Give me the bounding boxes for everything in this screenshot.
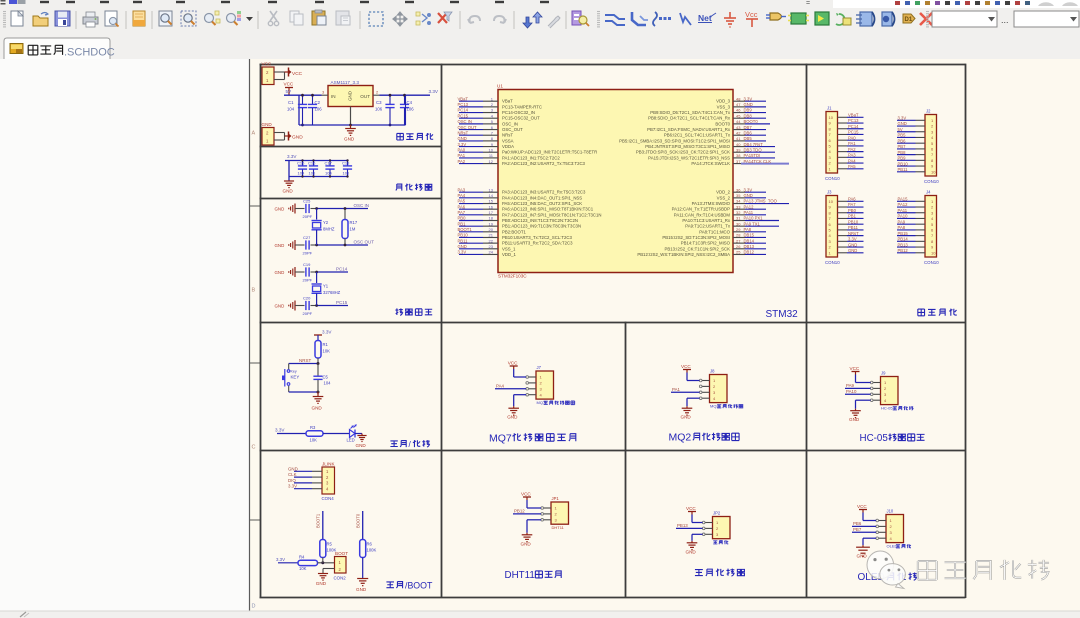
svg-text:20PF: 20PF bbox=[303, 251, 313, 256]
svg-text:5V: 5V bbox=[286, 89, 293, 94]
pin 30 right: net PA9 TX1 bbox=[733, 225, 745, 227]
svg-text:GND: GND bbox=[849, 417, 860, 422]
wire and net label DIO bbox=[294, 482, 312, 484]
svg-text:GND: GND bbox=[275, 304, 285, 309]
pin 37 right: net PA14TCK CLK bbox=[733, 163, 745, 165]
wire VCC to pin1 bbox=[862, 513, 864, 521]
svg-text:BOOT0: BOOT0 bbox=[744, 119, 759, 124]
svg-text:GND: GND bbox=[262, 122, 273, 127]
svg-text:24: 24 bbox=[489, 250, 494, 255]
svg-text:14: 14 bbox=[489, 193, 494, 198]
svg-text:10: 10 bbox=[931, 250, 936, 255]
pin 8 left: net GND bbox=[459, 140, 483, 142]
svg-text:42: 42 bbox=[736, 130, 741, 135]
svg-text:PA11: PA11 bbox=[744, 210, 754, 215]
pin 24 left: net 3.3V bbox=[459, 253, 483, 255]
pin 15 left: net PA5 bbox=[459, 203, 483, 205]
svg-text:KEY: KEY bbox=[291, 375, 300, 380]
svg-text:20PF: 20PF bbox=[303, 311, 313, 316]
regulator U2 ASM1117_3.3 bbox=[328, 86, 373, 107]
svg-text:PA4: PA4 bbox=[848, 158, 856, 163]
svg-text:C20: C20 bbox=[303, 296, 311, 301]
wire left cap rail vertical bbox=[298, 95, 300, 125]
pin 3 regulator input bbox=[322, 94, 329, 96]
pin 44 right: net BOOT0 bbox=[733, 123, 745, 125]
wire BOOT0 vertical bbox=[362, 511, 364, 540]
svg-text:VCC: VCC bbox=[521, 492, 531, 497]
svg-text:PB10:USART3_Tx:T2C2_SCL:T2C3: PB10:USART3_Tx:T2C2_SCL:T2C3 bbox=[502, 235, 573, 240]
svg-text:PA6: PA6 bbox=[458, 204, 466, 209]
svg-text:PC13: PC13 bbox=[848, 118, 859, 123]
svg-text:HC-05: HC-05 bbox=[881, 406, 893, 411]
svg-text:C27: C27 bbox=[303, 235, 311, 240]
icon zoom document bbox=[159, 11, 172, 26]
connector P1 VCC 2-pin bbox=[262, 67, 274, 85]
svg-text:PA4:ADC123_IN4:DAC_OUT1:SPI1_N: PA4:ADC123_IN4:DAC_OUT1:SPI1_NSS bbox=[502, 195, 582, 200]
svg-text:C16: C16 bbox=[308, 161, 316, 166]
svg-text:18: 18 bbox=[489, 216, 494, 221]
resistor R6 100K bbox=[360, 540, 366, 558]
svg-text:CON2: CON2 bbox=[334, 576, 347, 581]
svg-text:Y1: Y1 bbox=[323, 284, 329, 289]
wire net PA1 bbox=[671, 391, 700, 393]
icon sheet entry bbox=[815, 12, 829, 25]
svg-text:NRST: NRST bbox=[299, 358, 312, 363]
capacitor C15 104 bbox=[302, 161, 304, 166]
svg-text:GND: GND bbox=[348, 91, 353, 101]
wire VCC to pin1 bbox=[691, 515, 693, 523]
wire pin4 to ground bbox=[687, 397, 700, 399]
svg-text:PA10:T1C3:USART1_Rx: PA10:T1C3:USART1_Rx bbox=[682, 218, 730, 223]
svg-text:PA5:ADC123_IN5:DAC_OUT2:SPI1_S: PA5:ADC123_IN5:DAC_OUT2:SPI1_SCK bbox=[502, 201, 582, 206]
icon copy (disabled) bbox=[290, 11, 299, 22]
svg-text:8MHZ: 8MHZ bbox=[323, 227, 335, 232]
pin 2 left: net PC13 bbox=[459, 106, 483, 108]
svg-text:D: D bbox=[252, 604, 256, 610]
svg-text:GND: GND bbox=[507, 415, 518, 420]
svg-text:JP2: JP2 bbox=[713, 511, 721, 516]
svg-text:PB15: PB15 bbox=[898, 231, 909, 236]
svg-text:3.3V: 3.3V bbox=[322, 330, 332, 335]
svg-text:3.3V: 3.3V bbox=[898, 116, 907, 121]
connector JP2 sensor bbox=[713, 517, 731, 539]
wire +5V rail bbox=[284, 94, 322, 96]
connector JP1 sensor bbox=[551, 502, 569, 524]
wire net PA5 bbox=[847, 168, 864, 170]
svg-text:PA11:CAN_Rx:T1C4:USBDM: PA11:CAN_Rx:T1C4:USBDM bbox=[674, 212, 731, 217]
svg-text:1M: 1M bbox=[350, 227, 356, 232]
svg-text:BOOT0: BOOT0 bbox=[356, 513, 361, 528]
svg-text:OSC_OUT: OSC_OUT bbox=[502, 127, 523, 132]
pin 20 left: net BOOT1 bbox=[459, 231, 483, 233]
wire connector P2 to GND flag bbox=[274, 132, 285, 134]
ground symbol filter bbox=[284, 180, 294, 182]
svg-text:PA3: PA3 bbox=[458, 187, 466, 192]
svg-text:VCC: VCC bbox=[850, 366, 860, 371]
pin 7 left: net NRsT bbox=[459, 134, 483, 136]
svg-text:CLK: CLK bbox=[288, 472, 297, 477]
toolbar grip bbox=[3, 11, 6, 13]
wire net 3.3V bbox=[897, 119, 916, 121]
resize grip mark bbox=[20, 612, 26, 617]
icon zoom colors bbox=[227, 14, 236, 23]
wire net 3.3V bbox=[847, 240, 864, 242]
svg-text:VSSA: VSSA bbox=[502, 138, 514, 143]
svg-text:DHT11: DHT11 bbox=[552, 525, 565, 530]
svg-text:J2: J2 bbox=[926, 109, 931, 114]
wire net PA6 bbox=[847, 200, 864, 202]
LED D1 bbox=[350, 430, 356, 438]
svg-text:C3: C3 bbox=[376, 100, 382, 105]
svg-text:VCC: VCC bbox=[262, 62, 272, 67]
wire net PA7 bbox=[847, 206, 864, 208]
svg-text:31: 31 bbox=[736, 216, 741, 221]
svg-text:PC14: PC14 bbox=[458, 108, 469, 113]
capacitor C20 20PF bbox=[295, 305, 305, 307]
svg-text:PB9:SDIO_D5:T2C1_SDA:T4C1:CAN_: PB9:SDIO_D5:T2C1_SDA:T4C1:CAN_Tx bbox=[650, 110, 731, 115]
icon recycle sheet bbox=[836, 14, 845, 25]
svg-text:PB0:ADC123_IN8:T1C3:T8C2N:T3C2: PB0:ADC123_IN8:T1C3:T8C2N:T3C2N bbox=[502, 218, 578, 223]
svg-text:OSC OUT: OSC OUT bbox=[458, 125, 478, 130]
pin 18 left: net PB0 bbox=[459, 220, 483, 222]
svg-text:PB12: PB12 bbox=[898, 248, 909, 253]
wire 3.3V to R3 bbox=[277, 433, 306, 435]
svg-text:C15: C15 bbox=[297, 161, 305, 166]
wire net GND bbox=[847, 246, 864, 248]
pin 25 right: net DB12 bbox=[733, 253, 745, 255]
wire 3.3V rail bbox=[380, 94, 431, 96]
wire net PB5 bbox=[897, 136, 916, 138]
wire key to gnd node bbox=[288, 386, 290, 392]
svg-text:PB3:JTDO:SPI3_SCK:I2S3_CK:T2C2: PB3:JTDO:SPI3_SCK:I2S3_CK:T2C2:SPI1_SCK bbox=[636, 150, 730, 155]
wire net GND bbox=[847, 252, 864, 254]
svg-text:GND: GND bbox=[686, 549, 697, 554]
pin 6 left: net OSC OUT bbox=[459, 129, 483, 131]
toolbar separator bbox=[565, 11, 567, 29]
svg-text:17: 17 bbox=[489, 210, 494, 215]
svg-text:3.3V: 3.3V bbox=[848, 237, 857, 242]
icon probe (disabled) bbox=[548, 16, 560, 28]
wire to net PC14 bbox=[317, 271, 348, 273]
toolbar grip bbox=[597, 11, 600, 13]
top cut-off toolbar row remnants bbox=[1, 0, 6, 2]
wire net NRsT bbox=[847, 235, 864, 237]
svg-text:PA9: PA9 bbox=[898, 219, 906, 224]
svg-text:PC13: PC13 bbox=[458, 102, 469, 107]
section title 通用引脚 bbox=[918, 309, 925, 316]
svg-text:C2: C2 bbox=[315, 100, 321, 105]
connector J4 CON10 bbox=[925, 196, 937, 258]
ground symbol below regulator bbox=[350, 125, 352, 129]
pin 2 regulator output bbox=[373, 94, 380, 96]
svg-text:PC14-OSC32_IN: PC14-OSC32_IN bbox=[502, 110, 535, 115]
svg-text:VCC: VCC bbox=[686, 506, 696, 511]
wire filter left vertical bbox=[288, 161, 290, 182]
svg-text:PC15: PC15 bbox=[336, 300, 348, 305]
svg-text:PB5: PB5 bbox=[898, 133, 907, 138]
svg-text:27: 27 bbox=[736, 238, 741, 243]
capacitor C19 20PF bbox=[295, 271, 305, 273]
icon device sheet symbol bbox=[860, 12, 872, 26]
svg-text:GND: GND bbox=[848, 248, 857, 253]
toolbar separator bbox=[513, 11, 515, 29]
pin 12 left: net PA2 bbox=[459, 163, 483, 165]
svg-text:U1: U1 bbox=[497, 84, 503, 89]
svg-text:PA10: PA10 bbox=[898, 214, 909, 219]
svg-text:PB9: PB9 bbox=[898, 156, 907, 161]
svg-text:=: = bbox=[806, 0, 810, 7]
svg-text:PB12: PB12 bbox=[514, 509, 525, 514]
wire R5 bottom to node bbox=[322, 558, 324, 563]
icon cut (disabled) bbox=[270, 11, 277, 21]
svg-text:PA14TCK CLK: PA14TCK CLK bbox=[744, 159, 772, 164]
section title 蜂鸣器报警 bbox=[695, 570, 703, 576]
svg-text:10: 10 bbox=[829, 115, 834, 120]
icon redo (disabled) bbox=[494, 16, 506, 23]
svg-text:PA12: PA12 bbox=[744, 204, 755, 209]
svg-text:GND: GND bbox=[292, 135, 303, 141]
pin 13 left: net PA3 bbox=[459, 191, 483, 193]
svg-text:PA12:CAN_Tx:T1ETR:USBDP: PA12:CAN_Tx:T1ETR:USBDP bbox=[672, 207, 731, 212]
svg-text:3.3V: 3.3V bbox=[276, 557, 285, 562]
svg-text:PC15-OSC32_OUT: PC15-OSC32_OUT bbox=[502, 116, 540, 121]
svg-text:43: 43 bbox=[736, 125, 741, 130]
svg-text:104: 104 bbox=[298, 171, 305, 176]
svg-text:VBaT: VBaT bbox=[848, 113, 859, 118]
wire connector P1 to VCC flag bbox=[274, 71, 285, 73]
svg-text:10K: 10K bbox=[310, 438, 318, 443]
svg-text:PA2: PA2 bbox=[458, 159, 466, 164]
connector P2 GND 2-pin bbox=[262, 128, 274, 146]
svg-text:GND: GND bbox=[283, 189, 294, 194]
section title 电压转换 bbox=[397, 133, 404, 140]
ground symbol boot0 bbox=[357, 578, 368, 580]
svg-text:47: 47 bbox=[736, 102, 741, 107]
svg-text:PA1: PA1 bbox=[672, 387, 681, 392]
pin 41 right: net DB5 bbox=[733, 140, 745, 142]
crystal Y2 8MHZ bbox=[316, 209, 318, 220]
section title 外部晶振 bbox=[395, 308, 402, 315]
wire net 5V bbox=[897, 131, 916, 133]
svg-text:104: 104 bbox=[325, 171, 332, 176]
svg-text:PA1: PA1 bbox=[848, 141, 856, 146]
svg-text:MQ2: MQ2 bbox=[669, 432, 692, 444]
svg-text:C5: C5 bbox=[323, 375, 329, 380]
wire to net PC15 bbox=[317, 305, 348, 307]
svg-text:PA8: PA8 bbox=[744, 227, 752, 232]
svg-text:PA9 TX1: PA9 TX1 bbox=[744, 221, 761, 226]
connector J9 sensor bbox=[881, 377, 899, 405]
svg-text:GND: GND bbox=[356, 587, 367, 592]
svg-text:3.3V: 3.3V bbox=[744, 96, 753, 101]
pin 28 right: net DB15 bbox=[733, 236, 745, 238]
svg-text:PB10: PB10 bbox=[458, 233, 469, 238]
connector J10 sensor bbox=[886, 515, 904, 543]
svg-text:46: 46 bbox=[736, 108, 741, 113]
svg-text:PB1: PB1 bbox=[458, 221, 467, 226]
svg-text:PB11: PB11 bbox=[848, 225, 859, 230]
icon move bbox=[393, 12, 407, 26]
wire to net OSC OUT bbox=[317, 244, 368, 246]
svg-text:PB1: PB1 bbox=[848, 214, 857, 219]
connector J7 sensor bbox=[536, 371, 554, 399]
svg-text:DB12: DB12 bbox=[744, 250, 755, 255]
svg-text:PA13 JTMS_TOO: PA13 JTMS_TOO bbox=[744, 199, 778, 204]
svg-text:41: 41 bbox=[736, 136, 741, 141]
ground symbol JP2 bbox=[691, 541, 693, 543]
ground symbol reset bbox=[317, 392, 319, 397]
svg-text:CON10: CON10 bbox=[924, 260, 939, 265]
svg-text:20PF: 20PF bbox=[303, 278, 313, 283]
pin 34 right: net PA13 JTMS_TOO bbox=[733, 203, 745, 205]
svg-text:Pa0:WKUP:ADC123_IN0:T2C1ETR:T5: Pa0:WKUP:ADC123_IN0:T2C1ETR:T5C1-T8ETR bbox=[502, 150, 597, 155]
watermark wechat logo small bubble bbox=[880, 564, 906, 585]
pin 22 left: net PB11 bbox=[459, 242, 483, 244]
icon place wire bbox=[605, 15, 625, 25]
svg-text:PC15: PC15 bbox=[848, 130, 859, 135]
wire ground rail bottom bbox=[299, 124, 406, 126]
wire filter bottom rail bbox=[289, 176, 348, 178]
wire R4 to BOOT connector bbox=[318, 562, 335, 564]
icon delete red X bbox=[920, 13, 932, 25]
pin 5 left: net OSC IN bbox=[459, 123, 483, 125]
icon place bus bbox=[632, 12, 646, 25]
svg-text:R17: R17 bbox=[350, 220, 358, 225]
icon paste special (disabled) bbox=[336, 11, 349, 25]
ground symbol J10 bbox=[862, 545, 864, 547]
connector J8 sensor bbox=[710, 375, 728, 403]
wire R6 bottom to ground bbox=[362, 558, 364, 579]
svg-text:PB7:I2C1_SDA:FSMC_NADV:USART1_: PB7:I2C1_SDA:FSMC_NADV:USART1_Rx bbox=[647, 127, 731, 132]
resistor R4 10K bbox=[298, 560, 318, 565]
section title 复位/指示 bbox=[390, 441, 397, 447]
svg-text:45: 45 bbox=[736, 113, 741, 118]
wire net PB10 bbox=[897, 165, 916, 167]
svg-text:PA4: PA4 bbox=[496, 384, 505, 389]
toolbar grip bbox=[926, 11, 929, 13]
svg-text:106: 106 bbox=[315, 107, 323, 112]
svg-text:DB4 7RsT: DB4 7RsT bbox=[744, 142, 764, 147]
wire to net OSC IN bbox=[317, 208, 368, 210]
svg-text:C18: C18 bbox=[342, 161, 350, 166]
capacitor C1 104 bbox=[302, 95, 304, 104]
svg-text:PB0: PB0 bbox=[458, 216, 467, 221]
wire and net label GND bbox=[294, 470, 312, 472]
svg-text:13: 13 bbox=[489, 187, 494, 192]
pin 10 left: net PA0 bbox=[459, 151, 483, 153]
pin 38 right: net PA15TDI bbox=[733, 157, 745, 159]
svg-text:32: 32 bbox=[736, 210, 741, 215]
svg-text:VCC: VCC bbox=[681, 364, 691, 369]
svg-text:35: 35 bbox=[736, 193, 741, 198]
svg-text:C1: C1 bbox=[288, 100, 294, 105]
icon harness connector bbox=[882, 12, 892, 26]
svg-text:J8: J8 bbox=[710, 369, 715, 374]
svg-text:3.3V: 3.3V bbox=[288, 484, 297, 489]
svg-text:PA5: PA5 bbox=[848, 164, 856, 169]
svg-text:D1: D1 bbox=[905, 17, 913, 23]
svg-text:GND: GND bbox=[275, 270, 285, 275]
schematic sheet background bbox=[249, 59, 1080, 611]
icon place part bbox=[770, 13, 782, 20]
svg-text:DB15: DB15 bbox=[744, 233, 755, 238]
icon up-down hierarchy bbox=[523, 17, 532, 28]
svg-text:19: 19 bbox=[489, 221, 494, 226]
svg-text:PB7: PB7 bbox=[853, 527, 862, 532]
icon print bbox=[83, 17, 98, 24]
resistor R5 100K bbox=[320, 540, 326, 558]
wire net PA11 bbox=[897, 212, 916, 214]
wire 3.3V to R4 bbox=[278, 562, 298, 564]
svg-text:J10: J10 bbox=[887, 509, 894, 514]
wire pin3 to ground bbox=[527, 519, 541, 521]
svg-text:PA10: PA10 bbox=[846, 389, 857, 394]
svg-text:21: 21 bbox=[489, 233, 494, 238]
svg-text:VDD_2: VDD_2 bbox=[716, 190, 730, 195]
svg-text:PB1:ADC123_IN9:T1C3N:T8C3N:T3C: PB1:ADC123_IN9:T1C3N:T8C3N:T3C3N bbox=[502, 224, 581, 229]
wire net PC13 bbox=[847, 122, 864, 124]
wire R3 to LED bbox=[323, 433, 349, 435]
svg-text:104: 104 bbox=[287, 107, 295, 112]
ground symbol JP1 bbox=[526, 533, 528, 535]
svg-text:GND: GND bbox=[458, 136, 467, 141]
svg-text:R4: R4 bbox=[299, 555, 305, 560]
combo box 1 bbox=[932, 11, 997, 27]
svg-text:29: 29 bbox=[736, 227, 741, 232]
wire NRST node to key bbox=[289, 363, 318, 365]
wire net PA9 bbox=[845, 387, 871, 389]
ground symbol led bbox=[361, 434, 363, 436]
svg-text:PB8:SDIO_D4:T2C1_SCL:T4C1T:CAN: PB8:SDIO_D4:T2C1_SCL:T4C1T:CAN_Rx bbox=[648, 116, 731, 121]
wire net PB1 bbox=[847, 217, 864, 219]
svg-text:PB4:JNTRST:SPI3_MISO:T3C1:SPI1: PB4:JNTRST:SPI3_MISO:T3C1:SPI1_MISO bbox=[645, 144, 730, 149]
wire net PB6 bbox=[897, 142, 916, 144]
svg-text:...: ... bbox=[1001, 15, 1009, 25]
svg-text:PB7: PB7 bbox=[898, 144, 907, 149]
icon differential pair bbox=[903, 14, 915, 23]
svg-text:PB12:I2S2_WS:T1BKIN:SPI2_NSS:I: PB12:I2S2_WS:T1BKIN:SPI2_NSS:I2C2_SMBA bbox=[637, 252, 730, 257]
pin 29 right: net PA8 bbox=[733, 231, 745, 233]
svg-text:PB6:I2C1_SCL:T4C1:USART1_Tx: PB6:I2C1_SCL:T4C1:USART1_Tx bbox=[664, 133, 731, 138]
pin 47 right: net GND bbox=[733, 106, 745, 108]
wire net PC15 bbox=[847, 133, 864, 135]
svg-text:VBaT: VBaT bbox=[458, 96, 469, 101]
wire net PB9 bbox=[897, 159, 916, 161]
svg-text:PA12: PA12 bbox=[898, 202, 909, 207]
pin 9 left: net 3.3V bbox=[459, 146, 483, 148]
wire net PB13 bbox=[897, 246, 916, 248]
svg-text:28: 28 bbox=[736, 233, 741, 238]
svg-text:PA6: PA6 bbox=[848, 197, 856, 202]
pin 11 left: net PA1 bbox=[459, 157, 483, 159]
power flag GND bbox=[288, 132, 290, 141]
svg-text:10K: 10K bbox=[323, 349, 331, 354]
svg-text:OSC IN: OSC IN bbox=[354, 203, 370, 208]
svg-text:PA1: PA1 bbox=[458, 153, 466, 158]
wire net PA9 bbox=[897, 223, 916, 225]
svg-text:PA8: PA8 bbox=[898, 225, 906, 230]
svg-text:GND: GND bbox=[356, 443, 367, 448]
wire net PB12 bbox=[897, 252, 916, 254]
pin 39 right: net DB3 TDO bbox=[733, 151, 745, 153]
svg-text:106: 106 bbox=[407, 107, 415, 112]
connector J3 CON10 bbox=[826, 196, 838, 258]
capacitor C4 106 bbox=[404, 95, 406, 104]
section title 滤波电路 bbox=[396, 184, 402, 191]
svg-text:DB3 TDO: DB3 TDO bbox=[744, 147, 763, 152]
svg-text:106: 106 bbox=[343, 171, 350, 176]
svg-text:IN: IN bbox=[331, 94, 336, 99]
